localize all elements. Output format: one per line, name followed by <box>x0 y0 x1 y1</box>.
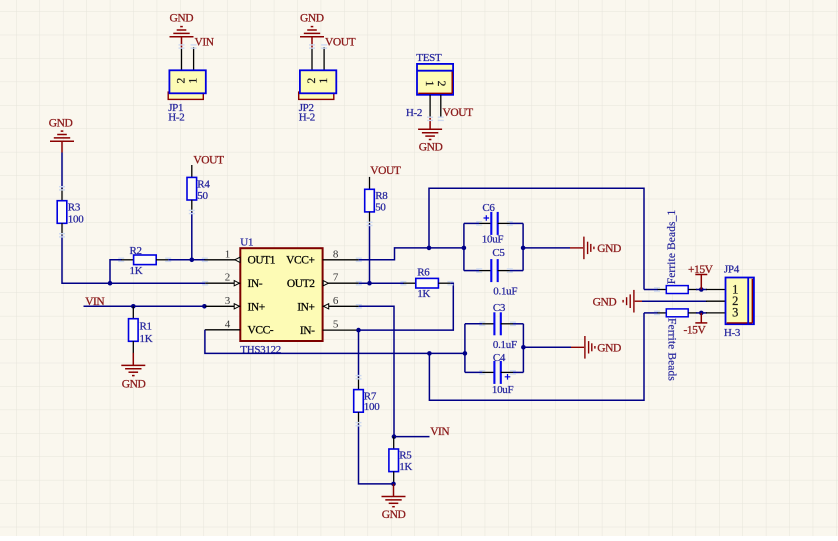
svg-text:GND: GND <box>170 13 194 25</box>
svg-text:R3: R3 <box>68 202 81 214</box>
svg-text:10uF: 10uF <box>482 234 504 246</box>
svg-text:GND: GND <box>122 378 146 390</box>
svg-text:100: 100 <box>68 213 84 225</box>
wire R2 left drop <box>110 260 122 283</box>
svg-text:10uF: 10uF <box>492 384 514 396</box>
junction R8/pin7 <box>367 281 372 286</box>
junction C3/C4 left <box>463 351 468 356</box>
ground GND (C3/C4) <box>571 336 595 359</box>
wire bead L2 to JP4 pin3 <box>688 312 707 314</box>
value 0.1uF (C5) <box>493 285 517 297</box>
junction bottom rail drop <box>427 351 432 356</box>
junction +15V <box>699 287 704 292</box>
wire pin5 junction to R7 <box>358 330 360 378</box>
junction at R2 left drop <box>108 281 113 286</box>
svg-text:50: 50 <box>197 190 208 202</box>
svg-text:Ferrite Beads_1: Ferrite Beads_1 <box>666 210 678 285</box>
svg-text:5: 5 <box>333 318 339 330</box>
ground GND below R5 <box>382 484 406 507</box>
pin 5 IN- <box>300 318 359 337</box>
svg-text:1K: 1K <box>399 461 412 473</box>
svg-text:3: 3 <box>732 306 738 320</box>
svg-text:3: 3 <box>225 295 231 307</box>
junction C6/C5 left <box>462 246 467 251</box>
svg-text:IN-: IN- <box>300 325 315 337</box>
power port -15V <box>695 313 707 323</box>
designator JP1 <box>168 102 183 114</box>
svg-text:R8: R8 <box>375 190 388 202</box>
value 0.1uF (C3) <box>493 339 517 351</box>
pin-end grid markers <box>59 45 660 426</box>
svg-text:R6: R6 <box>417 266 430 278</box>
value 100 (R3) <box>68 213 84 225</box>
junction R2/R4/pin1 <box>190 258 195 263</box>
label Ferrite Beads_1 <box>666 210 678 285</box>
ground GND above R3 <box>50 131 74 152</box>
wire C4 bottom side <box>465 371 524 373</box>
wire JP4 pin2 <box>642 300 707 302</box>
wire C6 top side <box>464 222 523 224</box>
resistor R8 <box>365 177 375 224</box>
svg-text:IN-: IN- <box>248 278 263 290</box>
pin 1 OUT1 <box>204 248 275 266</box>
wire GND to R3 <box>61 153 63 190</box>
svg-text:TEST: TEST <box>416 52 442 64</box>
svg-text:C6: C6 <box>482 202 495 214</box>
capacitor C3 <box>482 312 513 335</box>
wire C6/C5 left vertical <box>463 223 465 270</box>
ground GND (JP4 pin2) <box>623 290 642 313</box>
designator JP2 <box>299 102 314 114</box>
junction pin6/R5 <box>392 434 397 439</box>
net label GND (C3/C4) <box>597 343 621 355</box>
pin 7 OUT2 <box>287 272 359 290</box>
svg-text:100: 100 <box>364 401 380 413</box>
junction R5/R7 GND <box>391 482 396 487</box>
net label GND (JP1) <box>170 13 194 25</box>
designator C6 <box>482 202 495 214</box>
svg-text:C5: C5 <box>492 247 505 259</box>
wire JP2 pin2 lead <box>311 48 313 70</box>
svg-text:GND: GND <box>382 509 406 521</box>
pin 3 IN+ <box>205 295 265 313</box>
svg-text:OUT2: OUT2 <box>287 278 315 290</box>
connector JP4 <box>726 278 754 325</box>
net label TEST <box>416 52 442 64</box>
designator R4 <box>197 178 210 190</box>
ground GND at JP2 pin 2 <box>300 27 324 48</box>
svg-text:GND: GND <box>597 343 621 355</box>
svg-text:GND: GND <box>419 142 443 154</box>
net label GND (TEST) <box>419 142 443 154</box>
svg-text:1K: 1K <box>417 288 430 300</box>
value 1K (R2) <box>130 265 143 277</box>
svg-text:GND: GND <box>593 296 617 308</box>
value 50 (R4) <box>197 190 208 202</box>
junction C3/C4 right GND tap <box>521 345 526 350</box>
svg-text:C3: C3 <box>493 302 506 314</box>
wire bottom rail <box>429 313 644 400</box>
net label GND (R1) <box>122 378 146 390</box>
junction -15V <box>699 311 704 316</box>
svg-text:OUT1: OUT1 <box>248 255 276 267</box>
svg-text:1: 1 <box>318 77 330 83</box>
wire JP1 pin2 lead <box>181 48 183 70</box>
wire R2 to pin1 <box>168 259 205 261</box>
wire pin8 up and right <box>359 248 464 260</box>
svg-text:50: 50 <box>375 202 386 214</box>
svg-text:VOUT: VOUT <box>370 165 401 177</box>
wire JP4 pin1 lead <box>706 289 726 291</box>
junction VIN wire at pin3 <box>202 304 207 309</box>
connector JP1 <box>168 70 206 99</box>
wire pin6 down to VIN row <box>359 306 430 436</box>
wire VCC- loop under U1 <box>205 330 465 354</box>
value 1K (R5) <box>399 461 412 473</box>
designator C5 <box>492 247 505 259</box>
svg-text:VCC+: VCC+ <box>286 255 314 267</box>
wire JP1 pin1 lead <box>193 47 195 70</box>
wire R6 down to pin5 <box>359 283 454 330</box>
net label VIN (left) <box>85 296 105 308</box>
svg-text:1: 1 <box>423 81 435 87</box>
svg-text:2: 2 <box>435 81 447 87</box>
designator R3 <box>68 202 81 214</box>
wire bead L1 to JP4 pin1 <box>688 289 707 291</box>
net label +15V <box>688 264 714 276</box>
wire to GND (C3/C4) <box>523 346 571 348</box>
wire C6/C5 right vertical <box>522 223 524 270</box>
resistor R7 <box>354 377 364 424</box>
net label -15V <box>684 324 707 336</box>
net label VOUT (JP2) <box>325 36 356 48</box>
value H-2 (JP2) <box>299 112 315 124</box>
net label VOUT (R8) <box>370 165 401 177</box>
svg-text:-15V: -15V <box>684 324 707 336</box>
power port +15V <box>695 275 707 290</box>
resistor R2 <box>121 255 168 265</box>
wire R4 to pin1 net <box>191 212 193 260</box>
junction top rail drop <box>427 246 432 251</box>
ground GND (C5/C6) <box>570 237 594 260</box>
pin 8 VCC+ <box>286 248 359 266</box>
svg-text:4: 4 <box>225 318 231 330</box>
svg-text:+15V: +15V <box>688 264 714 276</box>
net label VIN (R5) <box>430 426 450 438</box>
value H-2 (JP1) <box>168 112 184 124</box>
junction VIN/R1 <box>131 304 136 309</box>
net label VOUT (TEST) <box>443 107 474 119</box>
value 10uF (C6) <box>482 234 504 246</box>
svg-text:7: 7 <box>333 272 339 284</box>
pin 4 VCC- <box>205 318 274 336</box>
wire JP4 pin3 lead <box>706 312 726 314</box>
svg-text:R4: R4 <box>197 178 210 190</box>
svg-text:JP4: JP4 <box>724 264 740 276</box>
wire C3 top side <box>465 323 524 325</box>
designator R8 <box>375 190 388 202</box>
wire TEST pin2 lead <box>440 95 442 117</box>
svg-text:U1: U1 <box>240 237 253 249</box>
connector JP2 <box>299 70 337 99</box>
capacitor C5 <box>479 259 510 282</box>
designator R1 <box>140 321 152 333</box>
svg-text:1K: 1K <box>130 265 143 277</box>
resistor R5 <box>389 437 399 484</box>
net label GND (JP2) <box>300 13 324 25</box>
ground GND at JP1 pin 2 <box>170 27 194 48</box>
svg-text:H-2: H-2 <box>168 112 184 124</box>
svg-text:VOUT: VOUT <box>325 36 356 48</box>
value 10uF (C4) <box>492 384 514 396</box>
designator R6 <box>417 266 430 278</box>
label Ferrite Beads <box>666 318 678 381</box>
wire pin7 to R6 <box>359 282 404 284</box>
designator JP4 <box>724 264 740 276</box>
svg-text:GND: GND <box>49 117 73 129</box>
resistor R4 <box>187 165 197 212</box>
designator U1 <box>240 237 253 249</box>
resistor R3 <box>57 188 67 235</box>
ground GND below R1 <box>121 353 145 376</box>
wire C5 bottom side <box>464 270 523 272</box>
net label VOUT (R4) <box>193 155 224 167</box>
value THS3122 (U1) <box>240 344 281 356</box>
junction pin5/R7 <box>356 328 361 333</box>
svg-text:R2: R2 <box>130 245 142 257</box>
wire TEST pin1 lead <box>429 95 431 117</box>
value 1K (R6) <box>417 288 430 300</box>
wire C3/C4 right vertical <box>522 324 524 373</box>
svg-text:GND: GND <box>300 13 324 25</box>
net label GND (R5) <box>382 509 406 521</box>
net label GND (left) <box>49 117 73 129</box>
wire JP2 pin1 lead <box>323 47 325 70</box>
designator R2 <box>130 245 142 257</box>
wire R3 to IN- net <box>62 235 205 283</box>
capacitor C4 <box>482 361 513 384</box>
svg-text:H-3: H-3 <box>724 327 741 339</box>
wire top rail to ferrite bead L1 <box>644 289 666 291</box>
svg-text:2: 2 <box>175 77 187 83</box>
resistor R6 <box>403 278 450 288</box>
wire JP4 pin2 lead <box>706 300 726 302</box>
svg-text:IN+: IN+ <box>248 301 265 313</box>
connector JP3 TEST <box>417 64 453 95</box>
net label GND (C5/C6) <box>597 243 621 255</box>
svg-text:8: 8 <box>333 248 339 260</box>
svg-text:0.1uF: 0.1uF <box>493 285 517 297</box>
designator R7 <box>364 390 377 402</box>
value 1K (R1) <box>140 333 153 345</box>
wire VIN to pin3 <box>84 305 206 307</box>
wire C3/C4 left vertical <box>464 324 466 373</box>
svg-text:GND: GND <box>597 243 621 255</box>
designator C3 <box>493 302 506 314</box>
svg-text:1: 1 <box>187 77 199 83</box>
svg-text:1K: 1K <box>140 333 153 345</box>
wire R8 to pin7 <box>369 224 371 283</box>
svg-text:6: 6 <box>333 295 339 307</box>
svg-text:C4: C4 <box>493 352 506 364</box>
svg-text:H-2: H-2 <box>406 107 422 119</box>
svg-text:VOUT: VOUT <box>443 107 474 119</box>
net label VIN (JP1) <box>195 36 215 48</box>
ferrite bead L2 <box>666 309 688 317</box>
svg-text:VIN: VIN <box>195 36 215 48</box>
ground GND below TEST <box>418 117 442 140</box>
svg-text:VIN: VIN <box>430 426 450 438</box>
svg-text:H-2: H-2 <box>299 112 315 124</box>
designator R5 <box>399 450 412 462</box>
capacitor C6 <box>479 212 510 235</box>
ferrite bead L1 <box>666 286 688 294</box>
svg-text:R1: R1 <box>140 321 152 333</box>
resistor R1 <box>129 306 139 353</box>
value 100 (R7) <box>364 401 380 413</box>
svg-text:Ferrite Beads: Ferrite Beads <box>666 318 678 381</box>
wire to GND (C5/C6) <box>523 247 570 249</box>
wire top rail <box>429 188 644 289</box>
value 50 (R8) <box>375 202 386 214</box>
svg-text:0.1uF: 0.1uF <box>493 339 517 351</box>
svg-text:VCC-: VCC- <box>248 325 274 337</box>
op-amp U1 THS3122 body <box>240 248 322 341</box>
value H-2 (TEST) <box>406 107 422 119</box>
svg-text:IN+: IN+ <box>297 301 314 313</box>
svg-text:1: 1 <box>225 248 231 260</box>
designator C4 <box>493 352 506 364</box>
pin 6 IN+ <box>297 295 359 313</box>
svg-text:2: 2 <box>306 77 318 83</box>
net label GND (JP4) <box>593 296 617 308</box>
svg-text:2: 2 <box>225 272 231 284</box>
wire R7 to GND row <box>359 424 394 484</box>
pin 2 IN- <box>205 272 263 290</box>
svg-text:VOUT: VOUT <box>193 155 224 167</box>
junction C6/C5 right GND tap <box>521 246 526 251</box>
wire bottom rail to ferrite bead L2 <box>644 312 666 314</box>
value H-3 (JP4) <box>724 327 741 339</box>
svg-text:R5: R5 <box>399 450 412 462</box>
